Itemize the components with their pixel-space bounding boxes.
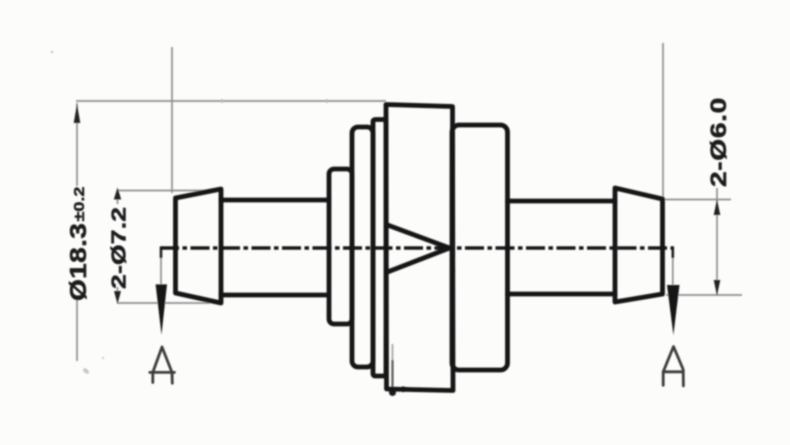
svg-text:2-Ø6.0: 2-Ø6.0: [707, 97, 731, 187]
svg-text:±0.2: ±0.2: [70, 187, 87, 222]
svg-text:2-Ø7.2: 2-Ø7.2: [108, 207, 130, 289]
svg-text:Ø18.3: Ø18.3: [66, 223, 91, 301]
